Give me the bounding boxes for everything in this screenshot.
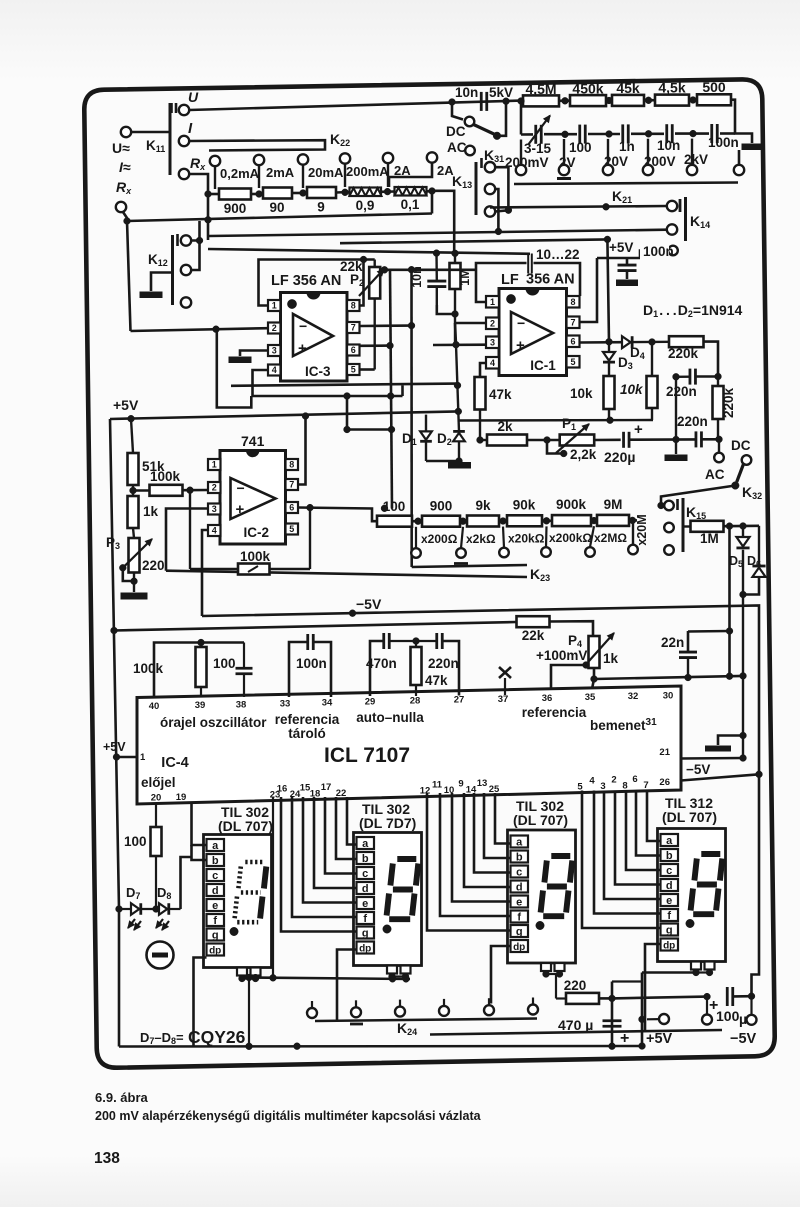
svg-text:AC: AC	[447, 140, 467, 155]
wire IC pin to display4 a	[647, 791, 661, 842]
node 2mA terminal	[254, 155, 264, 165]
junction	[403, 976, 410, 983]
svg-text:órajel oszcillátor: órajel oszcillátor	[160, 715, 267, 730]
wire IC pin to display3 d	[464, 793, 511, 887]
svg-text:c: c	[362, 868, 368, 880]
wire K12 contact2	[191, 241, 200, 271]
wire pin20 to 100 resistor	[155, 804, 157, 828]
svg-text:30: 30	[663, 690, 674, 701]
display digit1 seven-segment dotted 8 with lit 1	[245, 860, 264, 865]
svg-text:I≈: I≈	[119, 159, 131, 175]
wire P3 wiper to bottom	[123, 568, 134, 581]
svg-text:e: e	[362, 898, 368, 910]
wire IC pin to display3 b	[484, 793, 511, 858]
svg-text:16: 16	[277, 783, 288, 794]
junction	[460, 518, 467, 525]
wire	[644, 99, 655, 102]
switch K32 DC contact	[742, 455, 752, 465]
node 200V terminal	[643, 165, 653, 175]
IC-4 ICL7107 body	[137, 686, 681, 804]
svg-text:900k: 900k	[556, 497, 587, 512]
wire K23 lower line	[166, 571, 527, 577]
svg-text:x2kΩ: x2kΩ	[466, 532, 496, 546]
svg-text:2: 2	[272, 323, 277, 333]
wire	[550, 621, 594, 636]
junction	[609, 1043, 616, 1050]
switch K12 contact 2	[181, 265, 191, 275]
svg-text:1M: 1M	[700, 531, 719, 546]
svg-text:−5V: −5V	[356, 596, 382, 612]
wire	[455, 323, 456, 345]
junction	[639, 1016, 646, 1023]
wire IC pin to display4 f	[594, 791, 661, 914]
display digit4 pin b	[661, 849, 679, 861]
svg-text:100n: 100n	[296, 656, 327, 671]
junction	[205, 191, 212, 198]
wire pin7 IC-2 to +5V	[298, 416, 306, 485]
junction	[252, 974, 259, 981]
node common terminal	[734, 165, 744, 175]
wire V402	[401, 386, 404, 397]
svg-text:3: 3	[212, 504, 217, 514]
resistor 100k input	[133, 489, 150, 491]
svg-text:470 µ: 470 µ	[558, 1017, 593, 1033]
node K24 contact 6	[528, 1005, 538, 1015]
diode D3	[608, 342, 610, 353]
display digit3 outline	[508, 830, 576, 963]
svg-text:220k: 220k	[721, 387, 736, 418]
svg-text:0,2mA: 0,2mA	[220, 166, 260, 181]
display digit3 common dots	[543, 971, 550, 978]
svg-text:47k: 47k	[489, 387, 512, 402]
wire	[542, 519, 552, 522]
ground mark K24	[350, 1023, 363, 1026]
wire Rx feed down	[189, 174, 208, 240]
switch K31 AC contact	[465, 146, 475, 156]
capacitor 220n lower	[695, 431, 698, 447]
trimmer P1 2,2k	[560, 435, 595, 446]
junction	[740, 732, 747, 739]
node 2A terminal	[383, 153, 393, 163]
wire	[626, 258, 629, 264]
display digit3 pin a	[511, 836, 529, 848]
wire V216 U-link	[217, 329, 252, 407]
node +5V terminal	[659, 1014, 669, 1024]
svg-text:8: 8	[351, 301, 356, 311]
svg-text:220n: 220n	[677, 414, 708, 429]
junction	[455, 408, 462, 415]
node 200mA terminal	[340, 153, 350, 163]
wire display3 dp down	[491, 946, 511, 1004]
svg-text:AC: AC	[705, 467, 725, 482]
svg-text:17: 17	[321, 782, 332, 793]
junction	[704, 993, 711, 1000]
capacitor 220n upper	[689, 369, 692, 385]
node x200k tap	[545, 526, 548, 547]
svg-text:9: 9	[317, 200, 325, 215]
wire	[675, 132, 709, 135]
node x20M tap	[628, 545, 638, 555]
svg-text:450k: 450k	[572, 81, 603, 97]
svg-text:b: b	[666, 850, 673, 862]
wire	[131, 131, 170, 134]
wire 10n join	[437, 305, 455, 314]
svg-text:auto–nulla: auto–nulla	[356, 710, 424, 725]
wire K12 contact1 to bus	[191, 221, 200, 241]
junction	[124, 218, 131, 225]
wire x20M tap	[632, 520, 634, 544]
svg-text:a: a	[516, 836, 523, 848]
wire up to pin6	[309, 508, 311, 569]
arrow P2	[359, 269, 384, 296]
wire	[123, 212, 127, 221]
wire pin6 IC-2 to ladder	[298, 508, 377, 522]
wire V612 470u branch	[611, 982, 614, 1047]
wire 220n left branch	[675, 377, 677, 440]
wire	[724, 524, 760, 527]
svg-text:37: 37	[498, 694, 509, 705]
capacitor 100n decoupling	[618, 264, 637, 267]
wire display3 commons to 220	[555, 974, 557, 999]
svg-text:34: 34	[322, 697, 333, 708]
node x2k tap	[461, 527, 463, 548]
svg-text:U≈: U≈	[112, 140, 130, 156]
svg-text:3: 3	[600, 781, 605, 792]
svg-text:20mA: 20mA	[308, 165, 344, 180]
svg-text:D2: D2	[437, 431, 452, 447]
resistor 4,5M	[523, 95, 559, 106]
wire	[495, 210, 508, 211]
svg-text:39: 39	[195, 700, 206, 711]
junction	[388, 426, 395, 433]
switch K11 pole bar	[169, 103, 172, 175]
pin box 4	[268, 365, 281, 376]
svg-text:(DL 707): (DL 707)	[218, 818, 273, 834]
display digit3 seven-segment 8	[551, 853, 570, 859]
display digit3 pin f	[511, 911, 529, 923]
svg-text:470n: 470n	[366, 656, 397, 671]
svg-text:900: 900	[430, 499, 453, 514]
switch K15 contact bottom	[664, 545, 674, 555]
LED D8	[142, 908, 159, 910]
node input terminal lower	[116, 202, 126, 212]
svg-text:100: 100	[716, 1008, 740, 1024]
svg-text:dp: dp	[513, 942, 525, 953]
display digit1 outline	[204, 835, 272, 968]
ground mark 2V	[557, 177, 571, 180]
svg-text:4: 4	[212, 526, 217, 536]
svg-text:referencia: referencia	[275, 712, 340, 727]
wire U line to divider	[189, 101, 521, 110]
resistor 900k ladder	[552, 515, 591, 526]
resistor 90k ladder	[507, 515, 542, 526]
resistor 45k	[612, 95, 644, 106]
diode D4	[622, 336, 631, 348]
svg-text:2mA: 2mA	[266, 165, 295, 180]
wire K24 line1	[315, 1019, 537, 1022]
pin box 3	[486, 337, 499, 349]
svg-text:4,5k: 4,5k	[658, 80, 685, 96]
ground 220u	[675, 440, 677, 455]
wire pin2 IC-3 long line	[131, 328, 269, 331]
wire 22n branch	[688, 630, 730, 633]
svg-text:14: 14	[466, 784, 477, 795]
wire 500 to ground corner	[731, 100, 752, 143]
svg-text:b: b	[362, 853, 369, 865]
wire +5V pin1 stub	[116, 756, 137, 759]
svg-text:2: 2	[490, 318, 495, 328]
display digit2 pin a	[357, 837, 375, 849]
svg-text:IC-3: IC-3	[305, 364, 331, 379]
svg-text:100n: 100n	[708, 135, 739, 150]
wire V642	[641, 973, 644, 1047]
svg-text:+100mV: +100mV	[536, 648, 587, 663]
junction	[503, 98, 510, 105]
pin box 2	[208, 482, 221, 493]
svg-text:(DL 707): (DL 707)	[513, 812, 568, 828]
switch K13 tick	[480, 158, 483, 168]
capacitor 10-22 trimmer loop	[527, 254, 529, 274]
pin box 5	[567, 356, 580, 368]
junction	[477, 437, 484, 444]
svg-text:LF 356 AN: LF 356 AN	[271, 273, 341, 289]
wire Rx range line	[208, 249, 530, 254]
wire +5V rail	[110, 411, 458, 419]
svg-text:f: f	[363, 913, 367, 925]
svg-text:5: 5	[351, 365, 356, 375]
svg-text:P3: P3	[106, 535, 120, 551]
diode D5	[742, 526, 744, 538]
svg-text:+: +	[236, 501, 245, 518]
wire display4 dp down	[645, 944, 661, 1031]
resistor 100k oscillator	[196, 647, 207, 687]
wire	[738, 150, 741, 165]
svg-text:5: 5	[289, 524, 294, 534]
node x20k tap	[503, 527, 504, 548]
svg-text:tároló: tároló	[288, 726, 326, 741]
svg-text:LF: LF	[501, 272, 519, 288]
svg-text:8: 8	[622, 780, 627, 791]
svg-text:DC: DC	[731, 438, 751, 453]
resistor 100k feedback	[189, 490, 191, 569]
junction	[384, 188, 391, 195]
svg-text:d: d	[516, 881, 523, 893]
junction	[690, 130, 697, 137]
resistor 1M input	[454, 253, 456, 263]
svg-text:K13: K13	[452, 173, 472, 190]
display digit1 dp	[230, 927, 238, 935]
feedback loop IC-3 with P2	[259, 260, 375, 306]
wire	[599, 997, 612, 1000]
switch K13 contact top	[485, 162, 495, 172]
display digit1 pin g	[207, 929, 225, 941]
display digit3 pin b	[511, 851, 529, 863]
resistor 47k auto-null	[415, 641, 417, 647]
wire 2A second to chain mid	[389, 163, 432, 187]
junction	[726, 673, 733, 680]
wire	[630, 438, 696, 441]
notch IC-1	[526, 289, 539, 296]
pin box 6	[567, 336, 580, 348]
junction	[673, 436, 680, 443]
svg-text:2k: 2k	[497, 419, 513, 434]
svg-text:5: 5	[570, 357, 575, 367]
svg-text:+: +	[634, 421, 643, 438]
junction	[609, 995, 616, 1002]
wire K12 ground branch	[151, 273, 173, 292]
svg-text:27: 27	[454, 695, 465, 706]
svg-text:138: 138	[94, 1150, 120, 1167]
svg-text:x200Ω: x200Ω	[421, 532, 458, 546]
junction	[606, 97, 613, 104]
wire common bus left to shunt rail	[127, 214, 432, 222]
svg-text:26: 26	[659, 777, 670, 788]
svg-text:21: 21	[659, 747, 670, 758]
wire pin6 IC-2	[297, 506, 300, 509]
junction	[606, 131, 613, 138]
wire commons bus displays 1-2	[242, 978, 410, 980]
resistor 9	[307, 187, 336, 198]
svg-text:7: 7	[289, 480, 294, 490]
svg-text:+5V: +5V	[609, 240, 633, 255]
display digit4 pin a	[661, 834, 679, 846]
wire	[734, 995, 752, 998]
ground D2	[449, 463, 471, 469]
display digit4 outline	[658, 829, 726, 962]
svg-text:8: 8	[289, 460, 294, 470]
svg-text:10k: 10k	[620, 382, 644, 397]
wire IC pin to display4 g	[582, 791, 661, 929]
wire right bus from 1M	[728, 526, 731, 676]
junction	[344, 426, 351, 433]
wire K23 upper line	[412, 565, 527, 567]
arrow P1	[556, 424, 589, 453]
svg-text:10…22: 10…22	[536, 247, 580, 262]
svg-text:−: −	[517, 315, 525, 331]
notch 741	[247, 451, 259, 457]
svg-text:500: 500	[702, 79, 726, 95]
svg-text:200mA: 200mA	[346, 164, 389, 179]
svg-text:0,9: 0,9	[356, 198, 375, 213]
pin box 1	[208, 459, 221, 470]
op-amp triangle IC-2	[231, 478, 276, 519]
wire	[251, 193, 263, 196]
wire IC pin to display2 f	[292, 797, 357, 917]
oscillator group box	[154, 643, 244, 698]
display digit1 pin dp	[207, 944, 225, 956]
switch K12 contact 1	[176, 234, 179, 246]
wire IC pin to display2 b	[336, 797, 357, 859]
capacitor 100n 2kV	[710, 124, 713, 143]
junction	[505, 207, 512, 214]
display digit3 pin e	[511, 896, 529, 908]
display digit1 tabs	[237, 968, 247, 976]
svg-text:900: 900	[224, 201, 247, 216]
svg-text:100k: 100k	[150, 469, 181, 484]
junction	[413, 638, 420, 645]
svg-text:e: e	[212, 900, 218, 912]
svg-text:dp: dp	[663, 940, 675, 951]
node 0,2mA terminal	[210, 156, 220, 166]
svg-text:13: 13	[477, 778, 488, 789]
svg-text:c: c	[666, 865, 672, 877]
svg-text:I: I	[188, 120, 193, 137]
wire P4 wiper to pin36	[551, 665, 586, 694]
wire IC-2 pin4 to rail	[202, 530, 208, 616]
svg-text:a: a	[666, 835, 673, 847]
display digit1 pin d	[207, 884, 225, 896]
node K24 contact 4	[439, 1006, 449, 1016]
ground P3	[121, 593, 147, 599]
wire IC pin to display3 c	[474, 793, 511, 873]
ground mark x2k	[454, 562, 468, 565]
svg-text:x20M: x20M	[635, 514, 649, 545]
svg-text:+5V: +5V	[646, 1031, 673, 1047]
ground	[617, 280, 638, 286]
wire V607 down to D3 node	[607, 239, 609, 341]
svg-text:IC-1: IC-1	[530, 358, 556, 373]
resistor 1k	[128, 496, 139, 528]
node 2A second terminal	[427, 152, 437, 162]
junction	[649, 339, 656, 346]
wire	[499, 520, 507, 523]
svg-text:e: e	[516, 896, 522, 908]
capacitor 100n ref	[289, 642, 307, 697]
display digit2 pin g	[357, 927, 375, 939]
node U= input terminal	[121, 127, 131, 137]
svg-text:3-15: 3-15	[524, 141, 552, 156]
wire left supply bus	[110, 419, 119, 1047]
wire P3 bottom ground	[133, 573, 135, 593]
display digit4 seven-segment 8	[701, 851, 720, 857]
svg-text:g: g	[516, 926, 523, 938]
junction	[381, 505, 388, 512]
pin box 1	[486, 296, 499, 308]
junction	[456, 458, 463, 465]
svg-text:28: 28	[410, 696, 421, 707]
wire display1 commons down	[248, 978, 250, 1047]
op-amp triangle IC-1	[511, 312, 553, 354]
junction	[645, 97, 652, 104]
wire	[292, 192, 307, 195]
svg-text:32: 32	[628, 691, 639, 702]
junction	[748, 993, 755, 1000]
junction rail	[294, 1043, 301, 1050]
svg-text:12: 12	[420, 786, 431, 797]
svg-text:6: 6	[351, 345, 356, 355]
wire IC pin to display4 d	[615, 791, 661, 885]
pin box 5	[286, 524, 299, 535]
svg-text:100k: 100k	[240, 549, 271, 564]
wire	[520, 101, 523, 135]
svg-text:f: f	[667, 910, 671, 922]
wire	[460, 520, 467, 523]
svg-text:0,1: 0,1	[401, 197, 420, 212]
wire IC pin to display2 a	[347, 797, 357, 845]
svg-text:1: 1	[272, 301, 277, 311]
op-amp triangle IC-3	[293, 314, 333, 356]
junction	[302, 413, 309, 420]
junction	[562, 97, 569, 104]
resistor 900	[219, 189, 251, 200]
pin box 6	[347, 345, 360, 356]
svg-text:U: U	[188, 89, 199, 105]
wire bus B down to K23	[410, 270, 413, 567]
wire 220k to vertical	[704, 342, 719, 376]
svg-text:f: f	[213, 915, 217, 927]
svg-text:b: b	[212, 855, 219, 867]
wire K21 switch line	[490, 206, 667, 208]
